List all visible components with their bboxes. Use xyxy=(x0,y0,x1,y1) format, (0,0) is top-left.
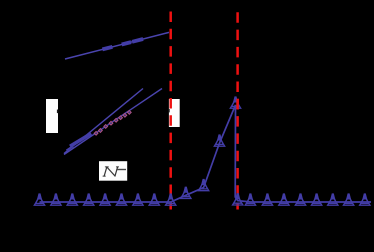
marker at x=235.5 xyxy=(230,97,240,108)
red dashed vertical line 1 xyxy=(169,12,172,210)
marker at x=219.5 xyxy=(214,135,224,146)
upper trajectory blob cluster 1 xyxy=(102,47,112,50)
marker at x=121.5 xyxy=(116,194,126,205)
marker at x=154.3 xyxy=(149,194,159,205)
notch on left box xyxy=(57,110,58,114)
upper-left eigenvalue trajectory line xyxy=(65,32,169,59)
marker at x=283.9 xyxy=(279,194,289,205)
marker at x=267.4 xyxy=(262,194,272,205)
upper trajectory blob cluster 3 xyxy=(132,39,143,42)
marker at x=332.8 xyxy=(328,194,338,205)
magenta diamond markers on fan line B xyxy=(94,110,131,135)
marker at x=105.1 xyxy=(100,194,110,205)
marker at x=88.7 xyxy=(84,194,94,205)
marker at x=250.4 xyxy=(245,194,255,205)
marker at x=364.8 xyxy=(360,194,370,205)
N-minus label box xyxy=(99,161,127,181)
N-minus text xyxy=(103,167,119,176)
fan blob lower bead xyxy=(67,146,74,150)
marker at x=170.7 xyxy=(166,194,176,205)
marker at x=137.9 xyxy=(133,194,143,205)
superscript minus xyxy=(116,169,126,170)
notch on right box xyxy=(168,109,170,112)
main resonance curve xyxy=(40,105,372,202)
fan line A (steep, plain) xyxy=(64,89,143,154)
marker at x=55.9 xyxy=(51,194,61,205)
triangle markers xyxy=(34,97,370,205)
upper trajectory blob cluster 2 xyxy=(122,42,131,44)
marker at x=203.6 xyxy=(198,180,208,191)
white label box at first red line xyxy=(169,99,180,127)
marker at x=348.6 xyxy=(343,194,353,205)
marker at x=72.3 xyxy=(67,194,77,205)
marker at x=237.7 xyxy=(233,194,243,205)
red dashed vertical line 2 xyxy=(236,12,239,209)
marker at x=300.5 xyxy=(295,194,305,205)
fan blob band xyxy=(70,134,91,147)
marker at x=316.6 xyxy=(311,194,321,205)
fan line B (shallow, carries diamonds) xyxy=(64,89,162,155)
white label box left xyxy=(46,99,58,133)
marker at x=185.8 xyxy=(181,187,191,198)
red dash overlay near peak xyxy=(236,99,239,110)
marker at x=39.5 xyxy=(34,194,44,205)
